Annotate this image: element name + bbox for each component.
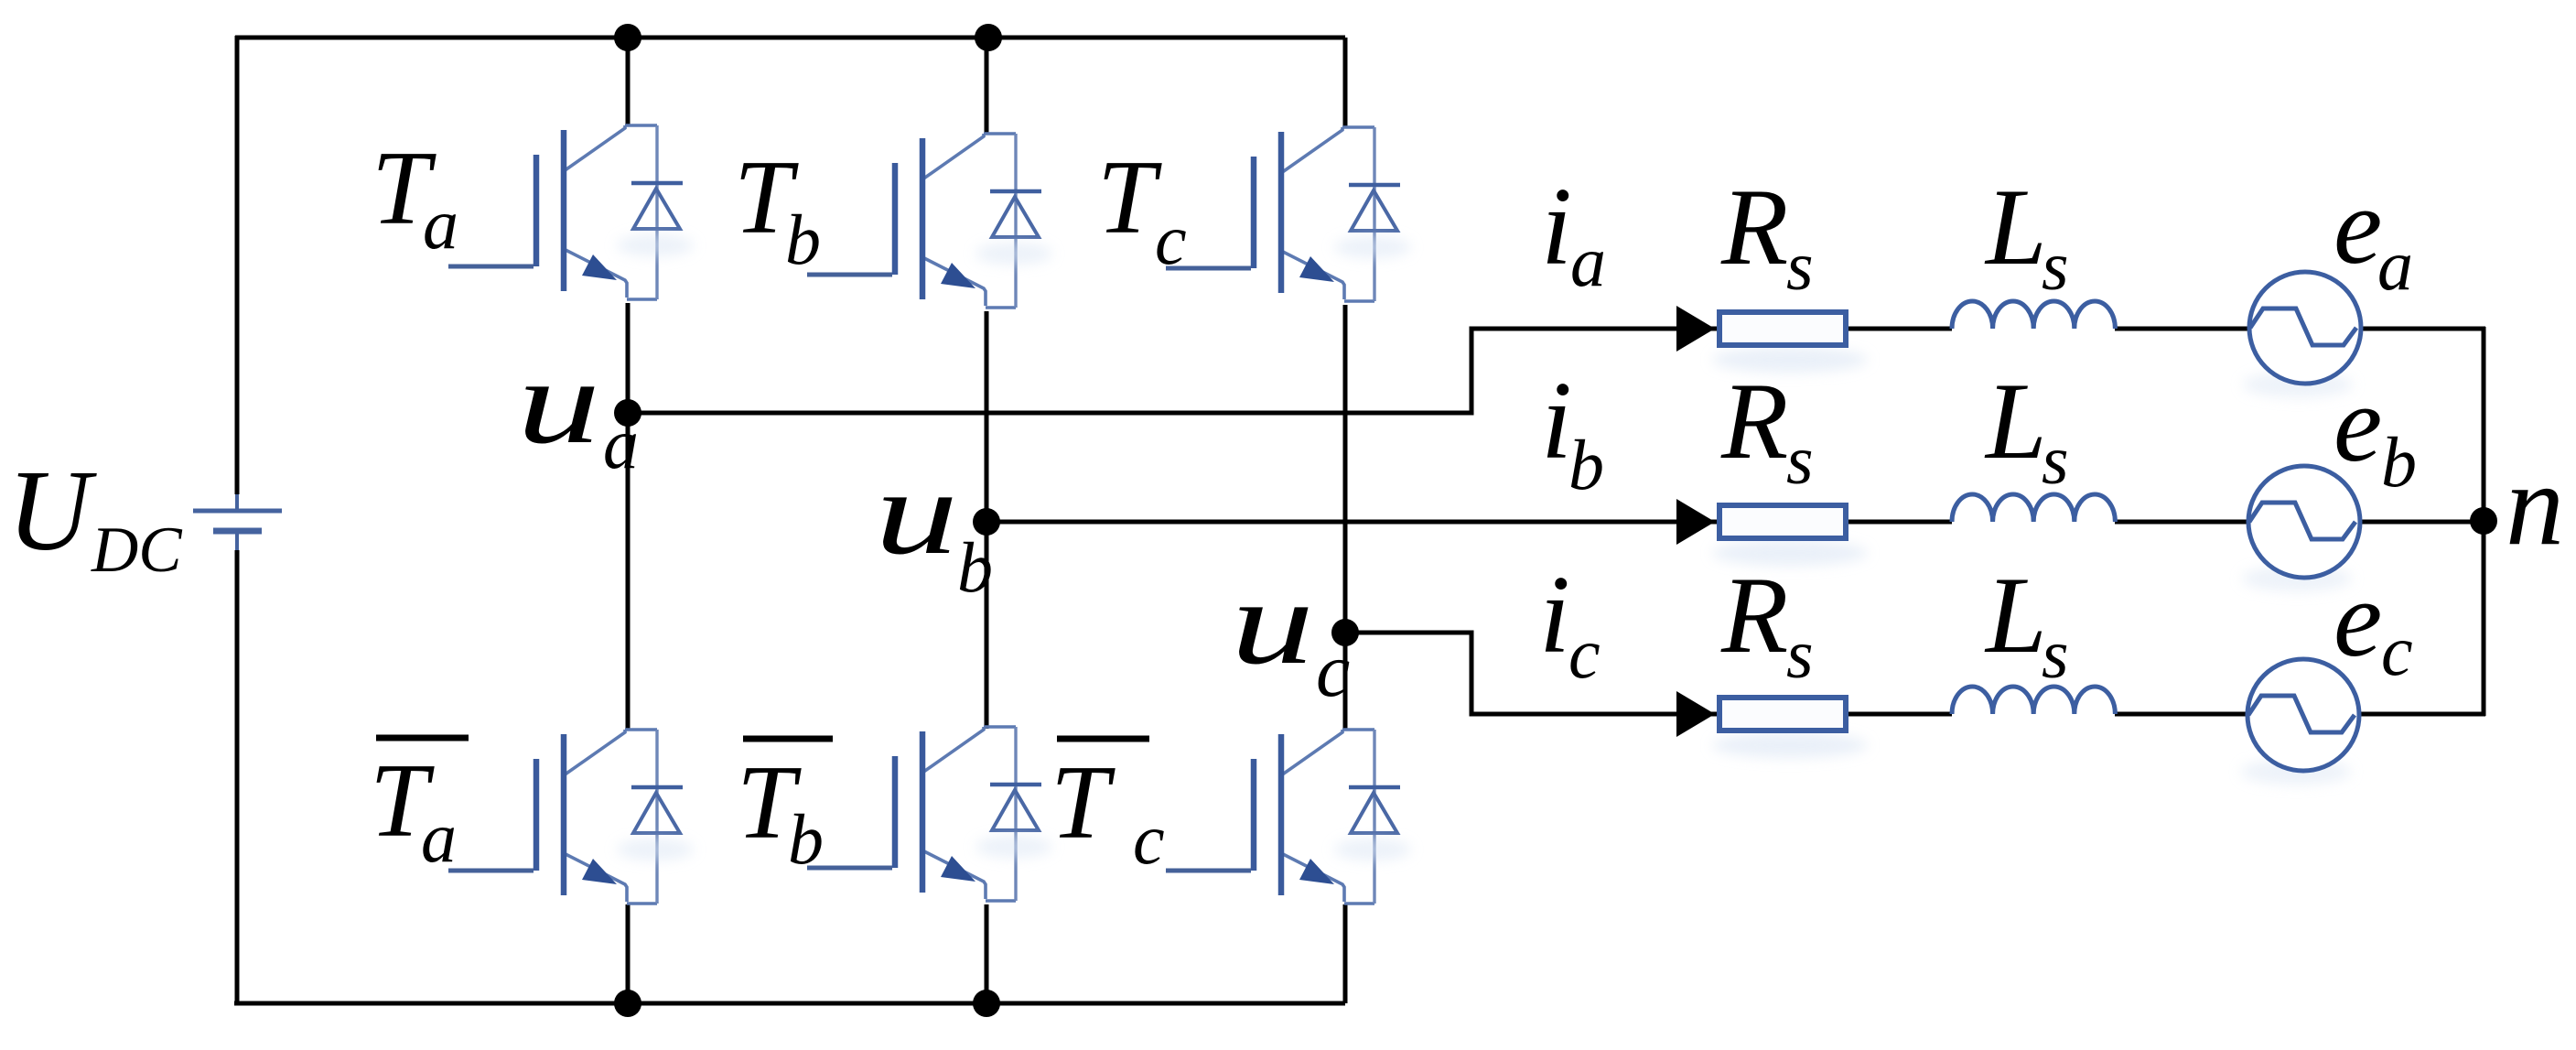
wire: leg a vertical segments [626, 38, 631, 124]
svg-text:b: b [2381, 422, 2417, 502]
transistor Ta upper with diode [448, 125, 694, 299]
node: top bus / leg b [975, 24, 1002, 51]
transistor Tc upper with diode [1166, 127, 1411, 301]
svg-text:c: c [2381, 611, 2413, 690]
svg-text:n: n [2506, 439, 2564, 569]
svg-text:s: s [2042, 228, 2069, 305]
node: bottom bus / leg b [973, 990, 1000, 1017]
wire: left DC link upper [235, 36, 240, 494]
svg-text:c: c [1568, 613, 1601, 693]
label Tb-bar [743, 736, 833, 742]
inductor Ls (phase b) [1952, 494, 2115, 522]
svg-text:DC: DC [91, 514, 183, 586]
svg-text:R: R [1720, 360, 1788, 482]
transistor Tc-bar lower with diode [1166, 730, 1411, 904]
node u_c [1331, 619, 1359, 646]
wire: leg b vertical segments [985, 38, 989, 133]
transistor Tb-bar lower with diode [807, 727, 1052, 901]
svg-text:R: R [1720, 166, 1788, 287]
source e_c [2241, 659, 2359, 785]
svg-text:L: L [1984, 166, 2047, 287]
svg-text:s: s [2042, 422, 2069, 499]
wire: top DC bus [235, 36, 1345, 40]
svg-text:e: e [2333, 557, 2382, 679]
transistor Tb upper with diode [807, 134, 1052, 308]
svg-text:u: u [1231, 556, 1314, 689]
svg-text:s: s [1786, 616, 1814, 693]
svg-text:a: a [1570, 222, 1606, 301]
wire: left DC link lower [235, 550, 240, 1005]
inductor Ls (phase c) [1952, 687, 2115, 714]
wire: right neutral vertical [2482, 327, 2486, 716]
battery U_DC [235, 494, 239, 509]
svg-text:s: s [1786, 422, 1814, 499]
resistor Rs (phase a) [1712, 312, 1868, 373]
svg-text:U: U [7, 448, 97, 575]
svg-text:a: a [421, 797, 457, 877]
svg-text:i: i [1541, 359, 1572, 482]
label Ta-bar [376, 735, 469, 741]
node: top bus / leg a [614, 24, 641, 51]
svg-text:T: T [1051, 744, 1116, 861]
svg-text:u: u [875, 446, 958, 579]
svg-text:s: s [1786, 228, 1814, 305]
svg-text:b: b [1568, 425, 1604, 504]
svg-text:s: s [2042, 616, 2069, 693]
svg-text:e: e [2333, 165, 2382, 287]
resistor Rs (phase b) [1712, 505, 1868, 566]
node: bottom bus / leg a [614, 990, 641, 1017]
node u_a [614, 399, 641, 427]
label Tc-bar [1057, 736, 1149, 742]
arrow i_c [1676, 691, 1715, 737]
svg-text:L: L [1984, 360, 2047, 482]
arrow i_a [1676, 306, 1715, 352]
svg-text:L: L [1984, 554, 2047, 676]
svg-text:R: R [1720, 554, 1788, 676]
svg-text:c: c [1155, 200, 1187, 279]
transistor Ta-bar lower with diode [448, 730, 694, 904]
wire: phase c output (u_c to row c) [1345, 633, 1717, 714]
inductor Ls (phase a) [1952, 301, 2115, 329]
source e_b [2242, 466, 2360, 591]
svg-text:a: a [423, 184, 458, 264]
node n [2470, 507, 2497, 535]
svg-text:c: c [1133, 799, 1165, 879]
svg-text:b: b [788, 799, 824, 879]
svg-text:b: b [785, 200, 821, 279]
wire: phase b output (u_b to row b) [986, 520, 1717, 525]
svg-text:i: i [1541, 165, 1572, 288]
svg-text:T: T [1097, 139, 1162, 255]
svg-text:u: u [517, 335, 600, 469]
svg-text:c: c [1316, 628, 1350, 713]
resistor Rs (phase c) [1712, 698, 1868, 758]
source e_a [2243, 272, 2361, 397]
arrow i_b [1676, 499, 1715, 545]
svg-text:e: e [2333, 363, 2382, 484]
svg-text:b: b [957, 527, 993, 607]
wire: leg c vertical segments [1343, 38, 1348, 126]
svg-text:a: a [603, 404, 639, 483]
svg-text:a: a [2377, 225, 2413, 305]
wire: phase a output (u_a to row a) [628, 329, 1717, 413]
node u_b [973, 508, 1000, 536]
svg-text:i: i [1539, 553, 1570, 677]
wire: bottom DC bus [234, 1001, 1345, 1006]
